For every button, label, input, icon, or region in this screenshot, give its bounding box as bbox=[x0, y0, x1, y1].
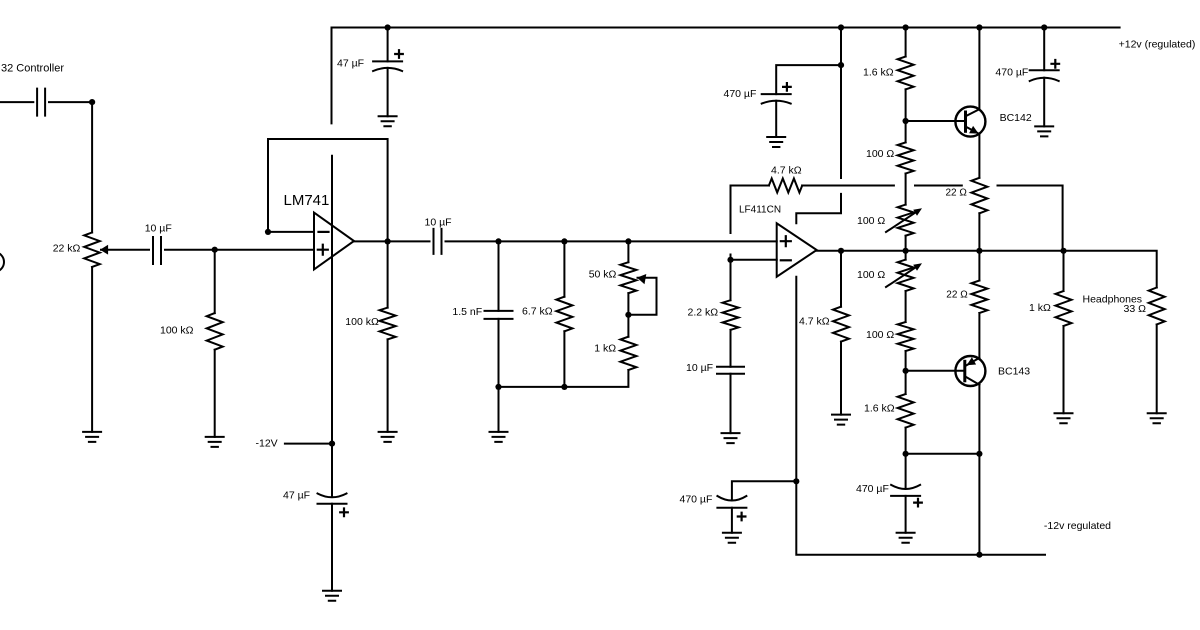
svg-text:470 µF: 470 µF bbox=[995, 67, 1028, 79]
svg-text:10 µF: 10 µF bbox=[686, 362, 713, 374]
svg-text:100 Ω: 100 Ω bbox=[857, 215, 885, 227]
svg-text:22 Ω: 22 Ω bbox=[946, 188, 968, 199]
svg-text:LM741: LM741 bbox=[284, 192, 330, 209]
svg-text:1.6 kΩ: 1.6 kΩ bbox=[864, 403, 895, 415]
svg-text:50 kΩ: 50 kΩ bbox=[589, 268, 617, 280]
svg-text:-12V: -12V bbox=[256, 438, 278, 450]
svg-text:1.5 nF: 1.5 nF bbox=[452, 306, 482, 318]
svg-text:470 µF: 470 µF bbox=[724, 88, 757, 100]
svg-text:22 kΩ: 22 kΩ bbox=[53, 243, 81, 255]
svg-text:4.7 kΩ: 4.7 kΩ bbox=[799, 316, 830, 328]
svg-text:LF411CN: LF411CN bbox=[739, 205, 781, 216]
svg-text:47 µF: 47 µF bbox=[337, 58, 364, 70]
svg-text:6.7 kΩ: 6.7 kΩ bbox=[522, 306, 553, 318]
svg-text:470 µF: 470 µF bbox=[680, 494, 713, 506]
svg-text:1.6 kΩ: 1.6 kΩ bbox=[863, 67, 894, 79]
svg-text:BC143: BC143 bbox=[998, 366, 1030, 378]
svg-text:100 kΩ: 100 kΩ bbox=[345, 316, 379, 328]
svg-text:10 µF: 10 µF bbox=[145, 223, 172, 235]
svg-text:100 Ω: 100 Ω bbox=[857, 269, 885, 281]
svg-text:-12v regulated: -12v regulated bbox=[1044, 520, 1111, 532]
svg-text:10 µF: 10 µF bbox=[425, 217, 452, 229]
svg-text:4.7 kΩ: 4.7 kΩ bbox=[771, 165, 802, 177]
svg-text:BC142: BC142 bbox=[1000, 112, 1032, 124]
svg-text:1 kΩ: 1 kΩ bbox=[594, 343, 616, 355]
svg-text:1 kΩ: 1 kΩ bbox=[1029, 302, 1051, 314]
svg-text:100 Ω: 100 Ω bbox=[866, 329, 894, 341]
svg-text:22 Ω: 22 Ω bbox=[946, 290, 968, 301]
svg-text:47 µF: 47 µF bbox=[283, 490, 310, 502]
svg-text:+12v (regulated): +12v (regulated) bbox=[1119, 39, 1196, 51]
svg-text:32 Controller: 32 Controller bbox=[1, 63, 64, 75]
svg-text:33 Ω: 33 Ω bbox=[1124, 303, 1147, 315]
svg-text:470 µF: 470 µF bbox=[856, 483, 889, 495]
svg-text:100 kΩ: 100 kΩ bbox=[160, 325, 194, 337]
svg-text:2.2 kΩ: 2.2 kΩ bbox=[688, 307, 719, 319]
svg-text:100 Ω: 100 Ω bbox=[866, 148, 894, 160]
